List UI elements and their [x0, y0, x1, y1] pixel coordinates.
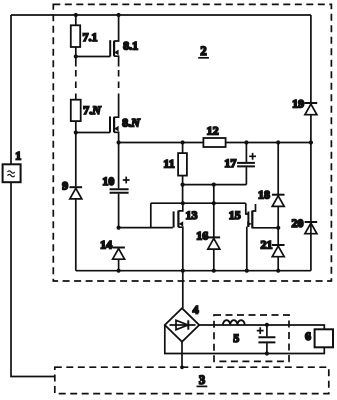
transistor Q13: [174, 203, 184, 271]
svg-text:14: 14: [100, 238, 112, 252]
node rail gate15: [245, 269, 249, 273]
diode D9: [70, 187, 83, 271]
plus C10: [123, 177, 130, 184]
wire right vertical: [310, 15, 312, 271]
node rail D14: [117, 269, 121, 273]
plus C17: [249, 153, 256, 160]
svg-text:1: 1: [15, 149, 21, 163]
node rail D21: [276, 269, 280, 273]
wire bridge bottom to box 3: [181, 342, 183, 369]
svg-text:9: 9: [62, 178, 68, 192]
svg-text:13: 13: [186, 208, 198, 222]
node rail bridge line: [181, 269, 185, 273]
resistor R11: [178, 143, 187, 185]
node bridge to box 3: [180, 365, 184, 369]
svg-text:20: 20: [292, 216, 304, 230]
dashed box 5: [214, 315, 289, 361]
wire node line y185: [183, 184, 247, 186]
wire gate 8.N: [76, 132, 110, 134]
block 1 (AC source): [3, 164, 21, 182]
label 2: [198, 44, 209, 58]
svg-text:5: 5: [233, 331, 239, 345]
capacitor C5: [258, 325, 275, 354]
node C5 top: [265, 323, 269, 327]
svg-text:21: 21: [261, 238, 273, 252]
svg-text:19: 19: [292, 97, 304, 111]
svg-text:15: 15: [229, 208, 241, 222]
node gate 13 wire: [117, 226, 121, 230]
node rail R11: [181, 140, 185, 144]
node mirror D16 line: [212, 201, 216, 205]
load block 6: [315, 329, 333, 347]
resistor R12: [203, 138, 225, 147]
label 3: [197, 373, 208, 387]
svg-text:18: 18: [258, 188, 270, 202]
node gate wire 7.1: [74, 54, 78, 58]
wire gate 13: [119, 227, 173, 229]
node rail D16: [212, 269, 216, 273]
node rail C17: [244, 140, 248, 144]
wire gate 8.1: [76, 56, 110, 58]
resistor R7.N: [71, 100, 81, 133]
wire mid rail left: [119, 142, 204, 144]
node R7.1 top: [74, 13, 78, 17]
wire mid rail right: [226, 142, 311, 144]
resistor R7.1: [71, 15, 80, 57]
wire mirror line y203: [151, 202, 246, 204]
diode D18: [272, 143, 285, 245]
node R11 bottom: [181, 183, 185, 187]
diode D19: [305, 103, 318, 115]
wire 8 column dashed repetition: [118, 70, 120, 91]
svg-text:8.1: 8.1: [123, 38, 138, 52]
svg-text:16: 16: [196, 228, 208, 242]
diode D16: [208, 185, 221, 271]
wire mirror drop left: [150, 203, 152, 227]
node D16 top: [212, 183, 216, 187]
plus C5: [257, 327, 264, 334]
svg-text:10: 10: [102, 174, 114, 188]
svg-text:7.N: 7.N: [83, 103, 102, 117]
transistor Q8.1: [110, 15, 118, 67]
dashed box 2: [53, 4, 331, 281]
AC symbol: [8, 171, 15, 177]
svg-text:4: 4: [193, 303, 199, 317]
bridge rectifier 4: [165, 308, 199, 342]
node C5 bottom: [265, 351, 269, 355]
node rail right end: [309, 140, 313, 144]
svg-text:3: 3: [199, 373, 205, 387]
svg-text:8.N: 8.N: [122, 116, 141, 130]
transistor Q15: [246, 203, 278, 271]
svg-text:11: 11: [163, 157, 174, 171]
wire rail to bridge: [182, 271, 184, 308]
svg-text:6: 6: [305, 329, 311, 343]
wire top rail: [11, 14, 311, 16]
node 8.1 drain top: [117, 13, 121, 17]
wire 7 column dashed repetition: [75, 70, 77, 91]
wire bottom rail: [76, 270, 311, 272]
node 8.N source rail: [117, 140, 121, 144]
svg-text:7.1: 7.1: [83, 30, 98, 44]
diode D14: [112, 248, 125, 271]
node rail D18: [276, 140, 280, 144]
diode D20: [305, 222, 318, 234]
diode D21: [272, 245, 285, 271]
wire 7 column solid stub: [75, 57, 77, 67]
node mirror drain 13: [181, 201, 185, 205]
capacitor C17: [237, 143, 255, 185]
wire bridge right to load: [199, 325, 324, 329]
wire left outer: [11, 15, 55, 377]
capacitor C10: [110, 143, 129, 228]
svg-text:17: 17: [224, 156, 236, 170]
inductor L: [223, 320, 245, 325]
wire R11 to mirror line: [182, 185, 184, 204]
wire bridge left to bottom: [165, 325, 324, 354]
wire 7 column down to diode 9: [75, 133, 77, 187]
dashed box 3: [55, 367, 329, 393]
node source 15: [276, 226, 280, 230]
svg-text:12: 12: [207, 123, 219, 137]
node gate wire 7.N: [74, 130, 78, 134]
wire 7 column stub to 7N: [75, 94, 77, 100]
svg-text:2: 2: [200, 44, 206, 58]
transistor Q8.N: [110, 94, 119, 143]
